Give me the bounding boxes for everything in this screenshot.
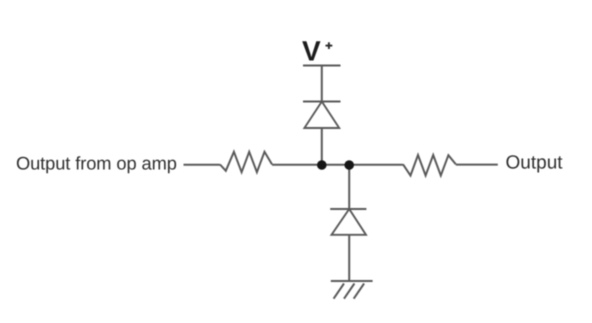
ground symbol: bar [331,280,373,282]
wire D1 anode to node A [321,128,323,165]
svg-text:V: V [302,35,321,66]
wire V+ rail to D1 cathode [321,66,323,102]
diode D1 triangle (anode, pointing up) [304,102,339,129]
resistor R2 (series output resistor) [403,155,456,176]
diode D2 (clamp to ground): cathode bar [330,208,366,210]
ground hatch slash 2 [344,284,354,299]
wire node B to D2 cathode [348,165,350,209]
wire R1 to node junctions [272,164,403,166]
diode D2 triangle (anode, pointing up) [332,209,367,235]
junction node A (to clamp diode D1) [317,160,327,170]
wire R2 to output label [456,164,498,166]
svg-text:Output from op amp: Output from op amp [16,152,177,173]
wire from op amp label to R1 [184,164,221,166]
ground hatch slash 3 [354,284,364,299]
diode D1 (clamp to V+): cathode bar [303,101,341,103]
resistor R1 (series input resistor) [220,152,272,172]
wire D2 anode to ground [348,235,350,281]
plus superscript of V+ [326,42,333,49]
V+ supply rail bar [303,65,341,67]
ground hatch slash 1 [334,284,344,299]
svg-text:Output: Output [506,152,564,173]
junction node B (to clamp diode D2) [344,160,354,170]
